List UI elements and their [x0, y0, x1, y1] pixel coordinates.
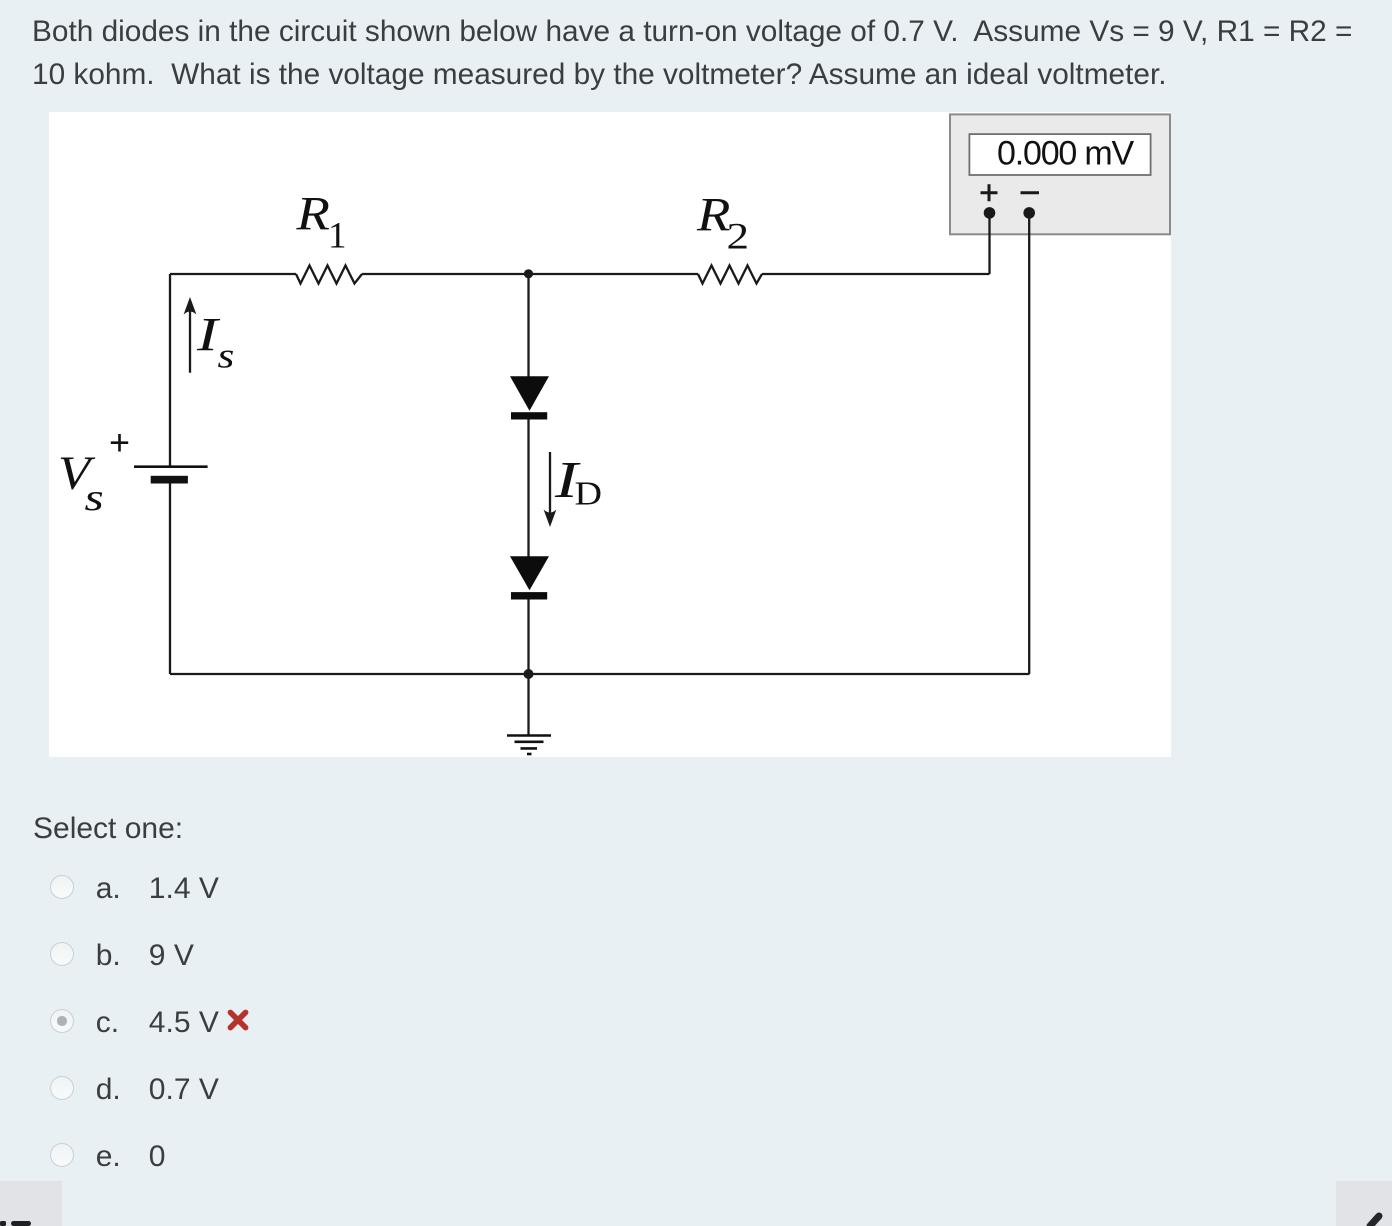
wire between diodes — [527, 420, 529, 557]
svg-text:R: R — [295, 188, 329, 241]
svg-text:1: 1 — [328, 216, 347, 257]
svg-text:s: s — [85, 476, 104, 518]
voltmeter + probe dot — [984, 207, 996, 219]
svg-text:R: R — [696, 189, 730, 242]
wire R2 to voltmeter plus probe — [762, 273, 990, 275]
wire - probe to bottom wire — [1028, 213, 1030, 674]
label + polarity of Vs — [111, 434, 128, 452]
node B junction dot at ground — [524, 669, 534, 679]
wire bottom horizontal — [170, 673, 1029, 675]
wire R1 to R2 through node A — [362, 273, 698, 275]
wire node A down to diode D1 — [527, 274, 529, 377]
resistor R1 — [296, 266, 362, 284]
svg-text:2: 2 — [727, 215, 750, 256]
voltmeter U1 body — [950, 114, 1170, 234]
battery Vs positive plate — [134, 465, 208, 468]
voltmeter display window — [969, 134, 1150, 175]
diode D1 — [510, 376, 549, 411]
voltmeter + terminal label — [981, 184, 998, 201]
wire + probe to top wire — [988, 213, 990, 274]
wire left vertical lower (battery to bottom wire) — [169, 484, 171, 675]
current Is arrow — [189, 309, 191, 373]
node A junction dot — [524, 269, 533, 278]
wire ground stub — [527, 674, 529, 735]
wire diode D2 to bottom wire — [527, 600, 529, 675]
current ID arrow — [549, 452, 551, 515]
svg-text:D: D — [575, 474, 602, 512]
voltmeter - probe dot — [1023, 207, 1035, 219]
wire left vertical upper (source to top wire) — [169, 274, 171, 466]
voltmeter - terminal label — [1021, 191, 1040, 194]
resistor R2 — [698, 266, 762, 284]
svg-text:s: s — [218, 336, 235, 376]
diode D2 — [510, 556, 549, 590]
ground symbol — [507, 734, 551, 737]
battery Vs negative plate — [151, 476, 188, 484]
svg-text:0.000 mV: 0.000 mV — [997, 135, 1134, 173]
wire top-left horizontal from source to R1 — [170, 273, 296, 275]
